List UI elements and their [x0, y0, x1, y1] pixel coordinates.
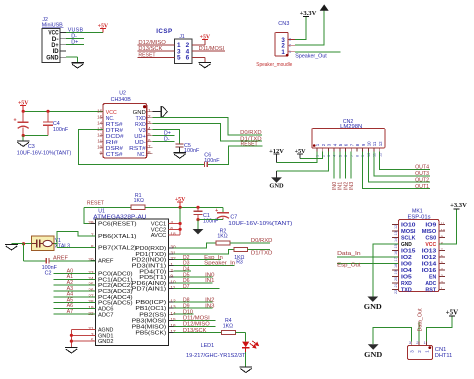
node IN2 label	[205, 297, 214, 303]
svg-text:5: 5	[177, 55, 181, 62]
svg-text:D11/MOSI: D11/MOSI	[183, 316, 210, 322]
node D4 label	[183, 267, 190, 273]
node IN0 label (CN2)	[332, 182, 338, 190]
module MK1 ESP-01s	[392, 208, 446, 294]
capacitor C1 100nF	[194, 207, 203, 219]
wire A6	[53, 307, 95, 309]
wire U2 RXD to D1/TXD	[152, 124, 262, 141]
svg-text:14: 14	[394, 238, 398, 242]
svg-text:IO13: IO13	[422, 249, 436, 255]
header J1 ICSP	[156, 28, 192, 64]
svg-text:OUT1: OUT1	[415, 184, 429, 190]
svg-text:Speaker_In: Speaker_In	[204, 261, 235, 267]
wire CN2 OUT3	[374, 152, 430, 176]
svg-text:VCC: VCC	[425, 242, 436, 248]
svg-text:PB4(MISO): PB4(MISO)	[132, 325, 167, 331]
node D13/SCK label	[138, 46, 162, 52]
node A1 label	[67, 274, 74, 280]
svg-text:12: 12	[394, 225, 398, 229]
svg-text:Speaker_moudle: Speaker_moudle	[256, 62, 292, 68]
wire CN2 pin6 IN2	[345, 152, 347, 179]
svg-text:D+: D+	[51, 43, 59, 49]
svg-text:16: 16	[394, 251, 398, 255]
power +3.3V (ESP)	[450, 202, 467, 209]
svg-text:+5V: +5V	[175, 197, 186, 203]
ground flag (U2 GND pin, sideways)	[152, 106, 167, 118]
svg-text:IN3: IN3	[349, 182, 355, 190]
resistor R1 1K	[131, 205, 145, 209]
svg-text:PB1(OC1): PB1(OC1)	[135, 306, 166, 312]
ground (J2)	[71, 63, 84, 68]
svg-text:IN1: IN1	[205, 278, 214, 284]
svg-text:GND2: GND2	[98, 339, 113, 345]
svg-text:IO2: IO2	[401, 255, 412, 261]
svg-text:+5V: +5V	[18, 100, 29, 106]
svg-text:100nF: 100nF	[53, 127, 69, 133]
svg-text:D7: D7	[183, 284, 190, 290]
svg-text:D+: D+	[71, 40, 78, 46]
capacitor C7 10UF tantalum	[215, 208, 229, 220]
svg-text:+5V: +5V	[446, 308, 459, 316]
junction C1 top	[196, 206, 199, 209]
node Data_In label	[337, 251, 361, 257]
svg-text:DHT11: DHT11	[435, 353, 453, 359]
wire U1 VCC pins bus	[169, 207, 181, 235]
node Speaker_In label	[204, 261, 235, 267]
IC U2 CH340B	[97, 91, 152, 158]
svg-text:7: 7	[350, 155, 354, 157]
wire CN1 pin1 to +5V	[426, 316, 452, 342]
svg-text:1: 1	[148, 108, 151, 113]
svg-text:2: 2	[148, 114, 151, 119]
label C2 100nF	[42, 265, 58, 276]
label C6 100nF	[204, 152, 220, 163]
svg-text:4: 4	[333, 155, 337, 157]
ground GND flag (ESP)	[364, 297, 382, 312]
svg-text:13: 13	[97, 127, 103, 132]
svg-text:1KΩ: 1KΩ	[134, 198, 144, 204]
wire +5V to C1/C7	[180, 207, 223, 212]
junction crystal ground node	[22, 242, 25, 245]
LED LED1	[242, 341, 258, 352]
svg-text:PB0(ICP): PB0(ICP)	[135, 300, 166, 306]
svg-text:SCLK: SCLK	[401, 236, 415, 242]
junction +5V node	[179, 206, 182, 209]
node A7 label	[67, 309, 74, 315]
node IN3 label (CN2)	[349, 182, 355, 190]
wire U2 DTR# through C6 to RESET	[79, 130, 263, 165]
pin stubs J2	[60, 32, 66, 57]
svg-text:AREF: AREF	[98, 259, 114, 265]
svg-text:D1/TXD: D1/TXD	[251, 251, 273, 257]
svg-text:22: 22	[394, 290, 398, 294]
svg-text:17: 17	[394, 257, 398, 261]
power +5V (U1)	[175, 197, 186, 207]
node A2 label	[67, 280, 74, 286]
wire A3 to PC3 pin	[53, 290, 95, 292]
wire D5 IN0	[173, 276, 212, 278]
node OUT4 label	[415, 165, 429, 171]
node OUT1 label	[415, 184, 429, 190]
svg-text:Speaker_Out: Speaker_Out	[295, 54, 327, 60]
svg-text:PB6(XTAL1): PB6(XTAL1)	[98, 234, 137, 240]
svg-text:GND: GND	[46, 55, 59, 61]
power +5V (ICSP)	[200, 34, 211, 40]
svg-text:100nF: 100nF	[184, 148, 200, 154]
svg-text:5: 5	[338, 155, 342, 157]
svg-text:Data_Out: Data_Out	[417, 308, 423, 332]
wire U2 V3 to C5	[152, 130, 179, 144]
svg-text:OUT4: OUT4	[415, 165, 429, 171]
svg-text:PD7(AIN1): PD7(AIN1)	[132, 287, 167, 293]
svg-text:NC.: NC.	[137, 152, 146, 158]
capacitor C6 100nF (inline)	[205, 162, 208, 168]
svg-text:RESET: RESET	[87, 201, 105, 207]
node A4 label	[67, 292, 74, 298]
node D1/TXD label (U1 side)	[251, 251, 273, 257]
svg-text:AVCC: AVCC	[151, 233, 166, 239]
wire CN2 OUT1	[363, 152, 431, 189]
wire J1 pin2 to +5V	[192, 39, 205, 45]
svg-text:+: +	[13, 118, 16, 124]
node D10 label	[183, 310, 193, 316]
resistor R4 1K	[222, 330, 236, 334]
svg-text:15: 15	[394, 244, 398, 248]
label CN1 DHT11	[435, 347, 453, 359]
svg-text:CN3: CN3	[278, 21, 289, 27]
wire D9 IN3	[173, 307, 212, 309]
wire R1 to +5V	[145, 206, 180, 208]
svg-text:10: 10	[441, 228, 446, 233]
power +5V (CN2)	[295, 148, 306, 159]
svg-text:IO10: IO10	[401, 223, 415, 229]
svg-text:12: 12	[97, 133, 103, 138]
node A3 label	[67, 286, 74, 292]
ground (ICSP)	[199, 62, 212, 67]
svg-text:D13/SCK: D13/SCK	[138, 46, 162, 52]
wire CN2 OUT4	[380, 152, 431, 170]
wire CN2 OUT2	[368, 152, 430, 183]
junction at C3 bottom	[22, 134, 25, 137]
svg-text:19: 19	[394, 270, 398, 274]
svg-text:Data_In: Data_In	[337, 251, 361, 257]
wire U1 ground bus	[71, 330, 95, 348]
svg-text:IO0: IO0	[401, 262, 412, 268]
svg-text:13: 13	[394, 231, 398, 235]
svg-text:12: 12	[378, 141, 383, 146]
svg-text:D11/MOSI: D11/MOSI	[199, 46, 225, 52]
node D- label (U2)	[164, 137, 170, 143]
svg-text:ADC7: ADC7	[98, 312, 113, 318]
wire D12/MISO to J1 pin1	[138, 44, 175, 46]
node A0 label	[67, 268, 74, 274]
node A6 label	[67, 303, 74, 309]
svg-text:IO9: IO9	[425, 223, 436, 229]
node OUT2 label	[415, 178, 429, 184]
node RESET label (ICSP)	[138, 53, 156, 59]
capacitor C4 100nF	[43, 111, 53, 135]
power +3.3V (CN3)	[300, 10, 317, 17]
svg-text:A7: A7	[67, 309, 74, 315]
wire Data_In to ESP IO2	[337, 256, 398, 258]
svg-text:GND: GND	[364, 351, 382, 359]
node D12/MISO label	[183, 322, 210, 328]
wire LED1 to ground	[245, 352, 247, 367]
node RESET label (U2 side)	[241, 142, 259, 148]
wire C3-C4 bottoms	[23, 135, 48, 137]
svg-text:1: 1	[281, 49, 285, 56]
svg-text:D13/SCK: D13/SCK	[183, 328, 207, 334]
svg-text:C2: C2	[45, 271, 52, 277]
svg-text:10: 10	[367, 141, 372, 146]
svg-text:TXD: TXD	[401, 288, 412, 294]
svg-text:8: 8	[356, 155, 360, 157]
wire RESET down to U1 pin29	[84, 207, 95, 223]
wire CN1 pin2 Data_Out	[418, 322, 420, 342]
svg-text:U2: U2	[119, 91, 126, 97]
node IN2 label (CN2)	[343, 182, 349, 190]
svg-text:GND: GND	[364, 303, 382, 311]
svg-text:11: 11	[372, 141, 377, 146]
wire J1 pin4 D11/MOSI	[192, 50, 225, 52]
wire A2 to PC2 pin	[53, 284, 95, 286]
svg-text:D9: D9	[183, 303, 190, 309]
svg-text:RST: RST	[425, 288, 436, 294]
wire +5V rail to U2 VCC	[23, 110, 103, 112]
wire CN2 pin1 to +12V	[277, 152, 318, 163]
svg-text:PB3(MOSI): PB3(MOSI)	[132, 318, 167, 324]
node D2 label	[183, 255, 190, 261]
svg-text:C7: C7	[230, 215, 237, 221]
svg-text:ICSP: ICSP	[156, 28, 172, 35]
label 10UF-16V-10%(TANT)	[17, 151, 72, 157]
svg-text:ID: ID	[53, 49, 60, 55]
wire crystal to XTAL2 pin8	[54, 244, 96, 248]
ground (LED1)	[240, 367, 253, 372]
svg-text:12: 12	[378, 153, 382, 157]
svg-text:3: 3	[327, 155, 331, 157]
wire A4 to PC4 pin	[53, 296, 95, 298]
label C4 100nF	[53, 121, 69, 133]
svg-text:OUT2: OUT2	[415, 178, 429, 184]
wire D+	[66, 44, 84, 46]
ground (C5)	[173, 153, 186, 158]
svg-text:GND: GND	[401, 242, 412, 248]
node Speaker_Out label	[295, 54, 327, 60]
wire A1 to PC1 pin	[53, 278, 95, 280]
svg-text:EN: EN	[429, 275, 436, 281]
svg-text:9: 9	[361, 155, 365, 157]
wire CN1 pin3 to ground	[373, 328, 412, 345]
svg-text:1KΩ: 1KΩ	[217, 234, 227, 240]
wire C1 to ground	[197, 220, 199, 229]
svg-text:2: 2	[321, 155, 325, 157]
svg-text:IN3: IN3	[205, 303, 214, 309]
node D11/MOSI label	[199, 46, 225, 52]
svg-text:PB5(SCK): PB5(SCK)	[135, 331, 166, 337]
wire D-	[66, 38, 84, 40]
ground GND flag (CN2)	[269, 171, 283, 190]
wire CN2 pin5 IN1	[339, 152, 341, 179]
svg-text:D0/RXD: D0/RXD	[240, 130, 262, 136]
svg-text:1: 1	[316, 155, 320, 157]
junction VCC2	[179, 228, 182, 231]
node D7 label	[183, 284, 190, 290]
svg-text:6: 6	[344, 155, 348, 157]
junction GND1	[70, 334, 73, 337]
node D0/RXD label (U1 side)	[251, 238, 273, 244]
svg-text:ADC: ADC	[425, 281, 436, 287]
node Data_Out label	[417, 308, 423, 332]
wire D11/MOSI	[173, 319, 215, 321]
wire crystal to XTAL1 pin7	[57, 231, 95, 247]
svg-text:+5V: +5V	[200, 34, 211, 40]
node D+ label (U2)	[164, 131, 171, 137]
svg-text:15: 15	[97, 115, 103, 120]
wire junction to ground (crystal)	[12, 243, 24, 245]
node IN1 label (CN2)	[338, 182, 344, 190]
svg-text:+3.3V: +3.3V	[300, 10, 317, 17]
wire crystal left to junction	[24, 243, 32, 245]
wire CN3 pin2 to supply arrow	[295, 11, 324, 46]
connector CN2 LM298N	[312, 119, 385, 157]
wire D10	[173, 313, 193, 315]
svg-text:+5V: +5V	[295, 148, 306, 155]
node IN1 label	[205, 278, 214, 284]
capacitor C2 100nF (inline)	[46, 258, 49, 264]
svg-text:20: 20	[394, 277, 398, 281]
connector J2 MiniUSB	[42, 17, 64, 62]
wire CN2 pin3 to GND	[277, 152, 329, 171]
node A5 label	[67, 297, 74, 303]
node D3 label	[183, 261, 190, 267]
wire CN2 pin4 IN0	[333, 152, 335, 179]
svg-text:19-217/GHC-YR1S2/3T: 19-217/GHC-YR1S2/3T	[186, 353, 246, 359]
svg-text:CS0: CS0	[425, 236, 436, 242]
wire J2 GND	[66, 57, 78, 62]
node IN0 label	[205, 272, 214, 278]
wire CN2 pin7 IN3	[350, 152, 352, 179]
svg-text:6: 6	[186, 55, 190, 62]
wire CN2 pin2 to +5V	[300, 152, 323, 159]
wire U2 UD+ to D+	[152, 135, 174, 137]
node D13/SCK label (U1 side)	[183, 328, 207, 334]
resistor R3 1K	[234, 247, 248, 251]
svg-text:11: 11	[373, 153, 377, 157]
junction at C4 top	[46, 110, 49, 113]
label R4 1K	[223, 318, 233, 329]
wire RESET to J1 pin5	[138, 56, 175, 58]
wire A5 to PC5 pin	[53, 302, 95, 304]
svg-text:VUSB: VUSB	[68, 28, 84, 34]
label C7	[230, 215, 237, 221]
svg-text:IO5: IO5	[401, 275, 412, 281]
wire ESP GND down	[373, 244, 399, 296]
svg-text:3: 3	[148, 120, 151, 125]
node D1/TXD label (U2)	[240, 136, 262, 142]
node RESET label (U1 side)	[87, 201, 105, 207]
node Esp_In label	[204, 255, 223, 261]
svg-text:10: 10	[367, 153, 371, 157]
svg-text:PC6(RESET): PC6(RESET)	[98, 221, 137, 227]
connector CN3	[275, 21, 295, 57]
node VUSB label	[68, 28, 84, 34]
svg-text:MISO: MISO	[422, 229, 437, 235]
label C1 100nF	[203, 213, 219, 225]
wire C1-C7 bottoms	[198, 219, 223, 221]
label C5 100nF	[184, 143, 200, 154]
crystal Y1 XTAL3	[32, 236, 54, 250]
wire ESP VCC to +3.3V	[439, 209, 457, 244]
svg-text:100nF: 100nF	[204, 158, 220, 164]
junction GND2	[70, 340, 73, 343]
wire VUSB	[66, 31, 103, 33]
label C7 value	[228, 221, 292, 227]
wire CN3 pin1 Speaker_Out	[295, 51, 340, 53]
wire RESET to R1	[84, 206, 131, 208]
svg-text:11: 11	[97, 139, 102, 144]
capacitor C5 100nF	[176, 144, 184, 153]
connector CN1 DHT11	[408, 340, 433, 359]
wire D12/MISO	[173, 325, 215, 327]
label R3 1K	[234, 255, 244, 266]
svg-text:AREF: AREF	[53, 255, 69, 261]
node D5 label	[183, 272, 190, 278]
svg-text:16: 16	[97, 109, 103, 114]
svg-text:RESET: RESET	[241, 142, 259, 148]
wire D4	[173, 270, 190, 272]
wire D13/SCK to R4	[173, 332, 221, 334]
wire D13/SCK to J1 pin3	[138, 50, 175, 52]
svg-text:IO12: IO12	[422, 255, 436, 261]
wire D2 Esp_In	[173, 259, 221, 261]
wire J1 pin6 to ground	[192, 57, 205, 62]
svg-text:+12V: +12V	[269, 148, 284, 155]
node D+ label	[71, 40, 78, 46]
label Y1 XTAL3	[55, 238, 71, 250]
svg-text:CH340B: CH340B	[111, 97, 131, 103]
wire U2 UD- to D-	[152, 141, 174, 143]
wire A7	[53, 313, 95, 315]
wire R4 to LED1	[235, 333, 245, 342]
ground GND flag (CN1)	[364, 344, 382, 359]
svg-text:D-: D-	[164, 137, 170, 143]
label C3	[28, 144, 35, 150]
svg-text:D0/RXD: D0/RXD	[251, 238, 273, 244]
text Speaker_moudle	[256, 62, 292, 68]
node D9 label	[183, 303, 190, 309]
ground (U1)	[65, 348, 78, 353]
svg-text:D8: D8	[183, 297, 190, 303]
resistor R2 1K	[216, 241, 230, 245]
svg-text:14: 14	[97, 121, 103, 126]
wire D3 Speaker_In	[173, 264, 234, 266]
svg-text:IO15: IO15	[401, 249, 415, 255]
power +5V (C3/C4 rail)	[18, 100, 29, 111]
node D6 label	[183, 278, 190, 284]
ground (crystal)	[5, 245, 18, 250]
svg-text:+3.3V: +3.3V	[450, 202, 467, 209]
svg-text:10: 10	[97, 145, 103, 150]
label R2 1K	[217, 228, 227, 239]
power +5V (CN1)	[446, 308, 459, 316]
svg-text:D12/MISO: D12/MISO	[138, 40, 166, 46]
node Esp_Out label	[337, 262, 361, 268]
node D12/MISO label	[138, 40, 166, 46]
wire R3 to D1/TXD	[248, 249, 270, 251]
svg-text:IO16: IO16	[422, 268, 436, 274]
svg-text:RXD: RXD	[401, 281, 412, 287]
